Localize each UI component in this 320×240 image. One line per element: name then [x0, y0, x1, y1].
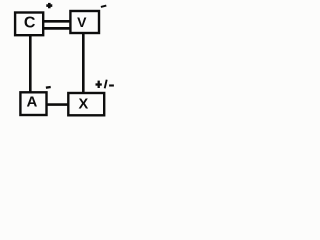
block A	[20, 92, 46, 115]
label - (top of A)	[46, 86, 51, 89]
block C	[15, 13, 43, 36]
block X	[68, 93, 104, 115]
wire C-A	[29, 34, 32, 93]
label - (top of V)	[101, 6, 106, 7]
svg-text:C: C	[24, 15, 36, 32]
block V	[70, 11, 99, 33]
svg-text:X: X	[79, 97, 89, 113]
svg-text:V: V	[77, 14, 87, 30]
wire V-X	[82, 32, 85, 94]
wire A-X	[46, 103, 70, 106]
label + (top of C)	[46, 3, 52, 8]
label +/- (top of X)	[96, 80, 114, 89]
svg-text:A: A	[26, 93, 37, 110]
wire C-V double line bottom	[42, 27, 72, 30]
wire C-V double line top	[42, 20, 72, 23]
